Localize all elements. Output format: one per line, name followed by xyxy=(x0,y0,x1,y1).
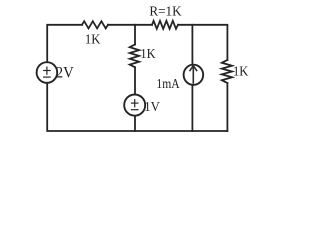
svg-text:1K: 1K xyxy=(85,32,101,47)
wire branch1 upper xyxy=(134,25,136,45)
svg-text:1K: 1K xyxy=(140,47,155,62)
svg-text:R=1K: R=1K xyxy=(149,5,181,20)
current source I1 1mA circle xyxy=(184,65,204,85)
voltage source V1 2V circle xyxy=(37,62,58,83)
wire right lower xyxy=(226,83,228,131)
wire branch1 middle xyxy=(134,67,136,94)
wire top middle xyxy=(108,24,152,26)
resistor R4 1K vertical right xyxy=(222,60,232,83)
wire top right segment xyxy=(178,25,227,60)
resistor R2 1K horizontal xyxy=(82,21,108,28)
svg-text:1mA: 1mA xyxy=(156,77,180,92)
wire branch2 upper xyxy=(191,25,193,64)
voltage source V2 1V circle xyxy=(124,95,145,116)
resistor R R=1K horizontal xyxy=(152,21,178,29)
wire left bottom xyxy=(47,83,227,131)
wire branch2 lower xyxy=(191,86,193,131)
wire branch1 lower xyxy=(134,116,136,131)
resistor R3 1K vertical middle xyxy=(130,45,139,68)
voltage source V1 plus-minus symbol xyxy=(43,67,51,78)
wire top-left segment xyxy=(47,25,82,62)
svg-text:2V: 2V xyxy=(56,65,74,82)
svg-text:1K: 1K xyxy=(233,64,248,79)
current source I1 arrow xyxy=(190,66,198,84)
voltage source V2 plus-minus symbol xyxy=(131,99,139,110)
svg-text:1V: 1V xyxy=(144,100,160,115)
